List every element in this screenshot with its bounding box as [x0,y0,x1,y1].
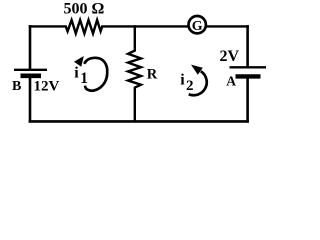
svg-text:12V: 12V [34,79,60,95]
svg-text:R: R [147,67,158,83]
svg-text:i: i [74,65,79,82]
svg-text:i: i [180,72,185,89]
svg-text:500 Ω: 500 Ω [64,1,105,18]
svg-text:2V: 2V [220,48,240,65]
svg-text:1: 1 [80,70,88,87]
svg-text:2: 2 [186,78,194,94]
svg-text:G: G [192,19,203,34]
svg-text:B: B [12,79,21,94]
svg-text:A: A [226,73,236,88]
